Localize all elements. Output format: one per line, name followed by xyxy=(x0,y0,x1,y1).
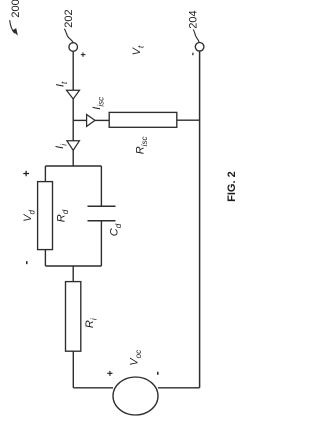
svg-text:Vd: Vd xyxy=(22,210,37,222)
arrow from label 200 xyxy=(10,20,18,35)
svg-text:204: 204 xyxy=(187,10,199,28)
svg-text:202: 202 xyxy=(63,9,75,27)
svg-text:+: + xyxy=(106,370,117,376)
wire: I_t arrow to I_i arrow xyxy=(72,99,74,141)
wire: R_i to bottom rail xyxy=(72,351,74,388)
svg-text:+: + xyxy=(78,52,88,57)
lead line to terminal 202 xyxy=(64,29,73,43)
wire: right rail (204 down to bottom) xyxy=(199,51,201,388)
svg-text:Ii: Ii xyxy=(54,144,69,149)
svg-text:-: - xyxy=(150,371,164,375)
svg-text:FIG. 2: FIG. 2 xyxy=(226,171,238,202)
wire: RC bottom bus xyxy=(45,265,101,267)
wire: I_i arrow to parallel RC top xyxy=(72,150,74,166)
svg-text:Ri: Ri xyxy=(84,318,99,328)
svg-text:Risc: Risc xyxy=(135,137,150,155)
wire: I_isc arrow to resistor R_isc xyxy=(95,119,109,121)
svg-text:+: + xyxy=(21,170,33,176)
wire: top bus down to capacitor C_d xyxy=(100,166,102,206)
wire: V_oc right to right rail xyxy=(158,387,200,389)
current arrow I_t xyxy=(67,90,80,99)
wire: bottom bus to resistor R_i xyxy=(72,266,74,282)
current arrow I_isc xyxy=(87,115,95,127)
lead line to terminal 204 xyxy=(193,29,199,42)
wire: bottom rail to V_oc left xyxy=(73,387,113,389)
wire: R_isc to right rail xyxy=(177,119,200,121)
wire: capacitor C_d to bottom bus xyxy=(100,221,102,266)
current arrow I_i xyxy=(67,141,80,151)
svg-text:-: - xyxy=(188,52,199,55)
capacitor C_d xyxy=(88,206,116,220)
source V_oc xyxy=(113,377,158,415)
svg-text:Iisc: Iisc xyxy=(91,97,106,110)
svg-text:Cd: Cd xyxy=(109,223,124,236)
wire: top bus down to R_d xyxy=(44,166,46,182)
resistor R_isc xyxy=(109,112,177,127)
terminal 204 xyxy=(195,43,204,52)
wire: terminal 202 to I_t arrow xyxy=(72,51,74,90)
resistor R_d xyxy=(38,182,53,250)
node: junction to short-circuit branch xyxy=(73,119,86,121)
svg-text:Voc: Voc xyxy=(129,350,144,366)
svg-text:-: - xyxy=(19,261,33,265)
terminal 202 xyxy=(69,43,78,52)
svg-text:Rd: Rd xyxy=(56,209,71,222)
svg-text:It: It xyxy=(55,81,70,87)
resistor R_i xyxy=(66,282,81,352)
svg-text:200: 200 xyxy=(10,0,22,18)
svg-text:Vt: Vt xyxy=(131,45,146,55)
wire: R_d to bottom bus xyxy=(44,250,46,266)
wire: RC top bus xyxy=(45,165,101,167)
